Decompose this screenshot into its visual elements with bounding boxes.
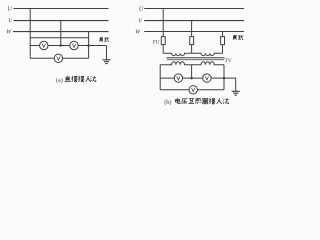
svg-text:U: U <box>7 7 12 13</box>
wire: below fuse 1 <box>162 45 164 54</box>
phase line U (a) <box>14 8 109 10</box>
phase line W (a) <box>13 31 109 33</box>
phase line V (a) <box>14 20 109 22</box>
wire: voltmeter row B2 <box>160 89 224 91</box>
fuse FU3 <box>221 37 225 45</box>
label 负载 (b) <box>233 35 236 40</box>
wire: voltmeter row 2 <box>30 57 88 59</box>
fuse FU1 <box>161 37 165 45</box>
node: V tap junction <box>60 44 63 47</box>
phase line V (b) <box>144 20 244 22</box>
node: middle junction <box>190 77 193 80</box>
wire: voltmeter row B1 <box>160 77 224 79</box>
ground (b) <box>232 91 240 95</box>
wire: secondary left vertical <box>159 65 161 90</box>
node: right junction <box>223 77 226 80</box>
transformer TV1 secondary <box>160 62 191 65</box>
wire: U drop (b) <box>162 9 164 37</box>
wire: below fuse 2 <box>191 45 193 54</box>
wire: ground stem (a) <box>106 46 108 60</box>
transformer TV2 secondary <box>192 62 224 65</box>
wire: U tap vertical <box>29 9 31 59</box>
voltmeter PV4 <box>174 74 182 82</box>
wire: W tap vertical <box>88 32 90 59</box>
wire: W drop (b) <box>222 32 224 37</box>
node: W tap junction <box>87 44 90 47</box>
wire: horizontal link U-W taps <box>30 37 88 39</box>
wire: V drop (b) <box>191 21 193 37</box>
svg-text:(b): (b) <box>164 99 171 106</box>
wire: secondary middle vertical <box>191 65 193 78</box>
voltmeter PV3 <box>54 54 62 62</box>
svg-text:TV: TV <box>225 58 232 64</box>
transformer TV1 primary <box>163 53 191 55</box>
svg-text:FU: FU <box>153 40 160 46</box>
voltmeter PV6 <box>189 86 197 94</box>
voltmeter PV1 <box>40 41 48 49</box>
transformer TV2 primary <box>192 53 223 55</box>
phase line U (b) <box>144 8 244 10</box>
transformer core <box>167 57 225 59</box>
ground (a) <box>103 60 111 64</box>
wire: secondary right vertical <box>223 65 225 90</box>
label 负载 (a) <box>100 37 103 42</box>
fuse FU2 <box>190 37 194 45</box>
phase line W (b) <box>144 31 244 33</box>
wire: below fuse 3 <box>222 45 224 54</box>
voltmeter PV5 <box>203 74 211 82</box>
wire: ground link (b) <box>224 78 236 91</box>
wire: voltmeter row 1 <box>30 45 106 47</box>
svg-text:(a): (a) <box>56 77 63 84</box>
wire: V tap vertical <box>60 21 62 46</box>
voltmeter PV2 <box>70 41 78 49</box>
svg-text:U: U <box>139 6 144 12</box>
